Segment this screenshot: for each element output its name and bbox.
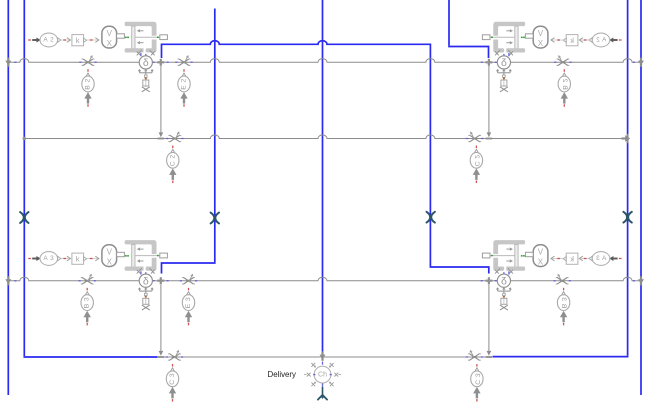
svg-text:X: X xyxy=(537,39,543,48)
throttle valve B2m top-right xyxy=(554,55,571,66)
junction line B right end xyxy=(622,134,631,143)
svg-text:B 3: B 3 xyxy=(84,297,91,308)
svg-text:B 2: B 2 xyxy=(561,78,568,89)
wire line D (y357) xyxy=(161,356,489,358)
svg-text:X: X xyxy=(107,258,113,267)
valve U4 left stub xyxy=(482,253,490,258)
svg-text:k: k xyxy=(76,36,80,45)
node BR xyxy=(485,277,492,284)
source C3m xyxy=(471,364,483,402)
valve U3 right stub xyxy=(160,253,168,258)
junction line A right end xyxy=(638,58,644,67)
source B3 xyxy=(81,288,93,326)
wire stub node TR down xyxy=(488,66,490,136)
throttle valve C3 xyxy=(166,350,183,361)
prop valve U2 top-right xyxy=(490,22,525,56)
coupling X on right inner rail xyxy=(623,212,631,223)
wire rail right outer xyxy=(640,0,642,395)
svg-text:δ: δ xyxy=(143,57,149,69)
source C2 xyxy=(167,146,179,184)
wire stub node TL down xyxy=(160,66,162,136)
svg-text:B 3: B 3 xyxy=(560,297,567,308)
throttle valve C3m bottom-right xyxy=(466,350,483,361)
svg-text:B 2: B 2 xyxy=(85,78,92,89)
source E2 xyxy=(178,69,190,107)
wire line C (y280.8) xyxy=(8,277,641,281)
arrowhead stub BL xyxy=(159,351,164,356)
source B2m xyxy=(558,69,570,107)
wire rail T1 left inner xyxy=(23,0,25,356)
source E3 xyxy=(182,288,194,326)
wire riser mid-left elbow to pump BL xyxy=(162,262,215,273)
wire stub node BL down xyxy=(160,285,162,355)
wire stub node BR down xyxy=(488,285,490,355)
pump P-BR (mirrored) xyxy=(495,268,513,310)
prop valve U1 top-left xyxy=(125,22,160,56)
svg-text:C 2: C 2 xyxy=(169,154,176,166)
prop valve U3 bottom-left xyxy=(125,240,160,274)
wire rail center xyxy=(322,0,324,352)
pump P-BL xyxy=(137,268,155,310)
svg-text:V: V xyxy=(537,29,543,38)
junction line A left end xyxy=(5,58,11,67)
arrowhead stub TR xyxy=(487,132,492,137)
svg-text:C 3: C 3 xyxy=(169,373,176,385)
throttle valve E2 xyxy=(175,55,192,66)
signal source A3 chain bottom-left xyxy=(28,245,129,267)
signal source A2 chain top-left xyxy=(28,26,129,48)
node TR xyxy=(485,59,492,66)
wire tank left elbow to node BL xyxy=(24,355,157,358)
source C2m xyxy=(470,146,482,184)
node TL xyxy=(157,59,164,66)
wire pump TL to BR supply xyxy=(162,41,489,274)
svg-text:δ: δ xyxy=(501,275,507,287)
throttle valve B2 xyxy=(79,55,96,66)
node BL xyxy=(157,277,164,284)
svg-text:X: X xyxy=(107,39,113,48)
wire line A (y62) xyxy=(8,59,641,63)
delivery chamber Ch xyxy=(304,362,341,400)
svg-text:V: V xyxy=(107,248,113,257)
throttle valve C2 xyxy=(166,131,183,142)
prop valve U4 bottom-right xyxy=(490,240,525,274)
source B2 xyxy=(82,69,94,107)
source B3m xyxy=(557,288,569,326)
svg-text:k: k xyxy=(76,255,80,264)
svg-text:C 2: C 2 xyxy=(473,154,480,166)
valve U1 right stub xyxy=(160,35,168,40)
wire riser mid-left xyxy=(214,9,216,263)
junction line C left end xyxy=(5,276,11,285)
svg-text:k: k xyxy=(570,255,574,264)
svg-text:A 2: A 2 xyxy=(43,37,54,44)
svg-text:Delivery: Delivery xyxy=(268,370,297,379)
svg-text:V: V xyxy=(537,248,543,257)
junction line B left end xyxy=(23,137,27,141)
svg-text:δ: δ xyxy=(143,275,149,287)
signal source A2 chain top-right (mirrored) xyxy=(521,26,622,48)
junction line C right end xyxy=(638,276,644,285)
arrowhead stub BR xyxy=(487,351,492,356)
wire rail P1 left outer xyxy=(7,0,9,395)
junction delivery top xyxy=(320,352,326,361)
svg-text:E 3: E 3 xyxy=(185,297,192,308)
pump P-TL xyxy=(137,50,155,92)
throttle valve B3m bottom-right xyxy=(554,274,571,285)
svg-text:V: V xyxy=(107,29,113,38)
svg-text:C 3: C 3 xyxy=(473,373,480,385)
source C3 xyxy=(166,364,178,402)
svg-text:Ch: Ch xyxy=(318,371,327,378)
svg-text:A 3: A 3 xyxy=(596,255,607,262)
coupling X on mid-right riser xyxy=(427,212,435,223)
svg-text:E 2: E 2 xyxy=(181,78,188,89)
svg-text:δ: δ xyxy=(501,57,507,69)
wire line B (y138.5) xyxy=(24,135,627,139)
wire top-right elbow to pump TR xyxy=(449,46,489,58)
svg-text:X: X xyxy=(537,258,543,267)
wire rail right inner xyxy=(627,0,629,356)
coupling X on mid-left riser xyxy=(211,213,219,224)
signal source A3 chain bottom-right (mirrored) xyxy=(521,245,622,267)
svg-text:A 2: A 2 xyxy=(596,37,607,44)
wire riser top-right xyxy=(448,0,450,46)
throttle valve E3 xyxy=(180,274,197,285)
throttle valve B3 xyxy=(79,274,96,285)
arrowhead stub TL xyxy=(159,132,164,137)
pump P-TR (mirrored) xyxy=(495,50,513,92)
throttle valve C2m mid-right xyxy=(466,131,483,142)
valve U2 left stub xyxy=(482,35,490,40)
coupling X on left inner rail xyxy=(20,212,28,223)
wire tank right elbow to node BR xyxy=(493,356,628,357)
svg-text:A 3: A 3 xyxy=(43,255,54,262)
svg-text:k: k xyxy=(570,36,574,45)
